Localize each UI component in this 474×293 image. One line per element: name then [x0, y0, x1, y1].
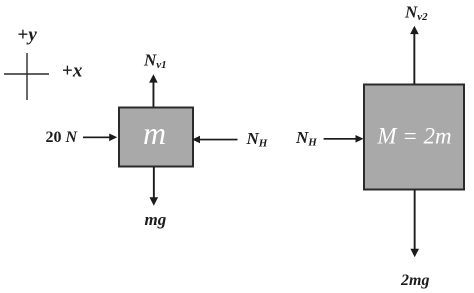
svg-text:20 N: 20 N: [46, 129, 79, 146]
svg-text:m: m: [143, 115, 166, 151]
force arrow NH-left on box m: [192, 136, 238, 144]
svg-text:2mg: 2mg: [400, 272, 429, 289]
box M = 2m: [364, 85, 464, 190]
force arrow Nv1 up: [149, 74, 158, 106]
box m: [119, 108, 193, 167]
svg-text:M = 2m: M = 2m: [376, 124, 451, 149]
axes cross: [4, 53, 49, 100]
force arrow NH-right on box M: [324, 135, 364, 143]
force arrow Nv2 up: [410, 26, 419, 84]
force arrow 2mg down: [410, 190, 419, 257]
svg-text:mg: mg: [145, 210, 167, 229]
svg-text:+x: +x: [62, 61, 83, 82]
force arrow mg down: [150, 167, 159, 206]
svg-text:+y: +y: [18, 25, 38, 46]
force arrow 20N right: [83, 134, 117, 142]
